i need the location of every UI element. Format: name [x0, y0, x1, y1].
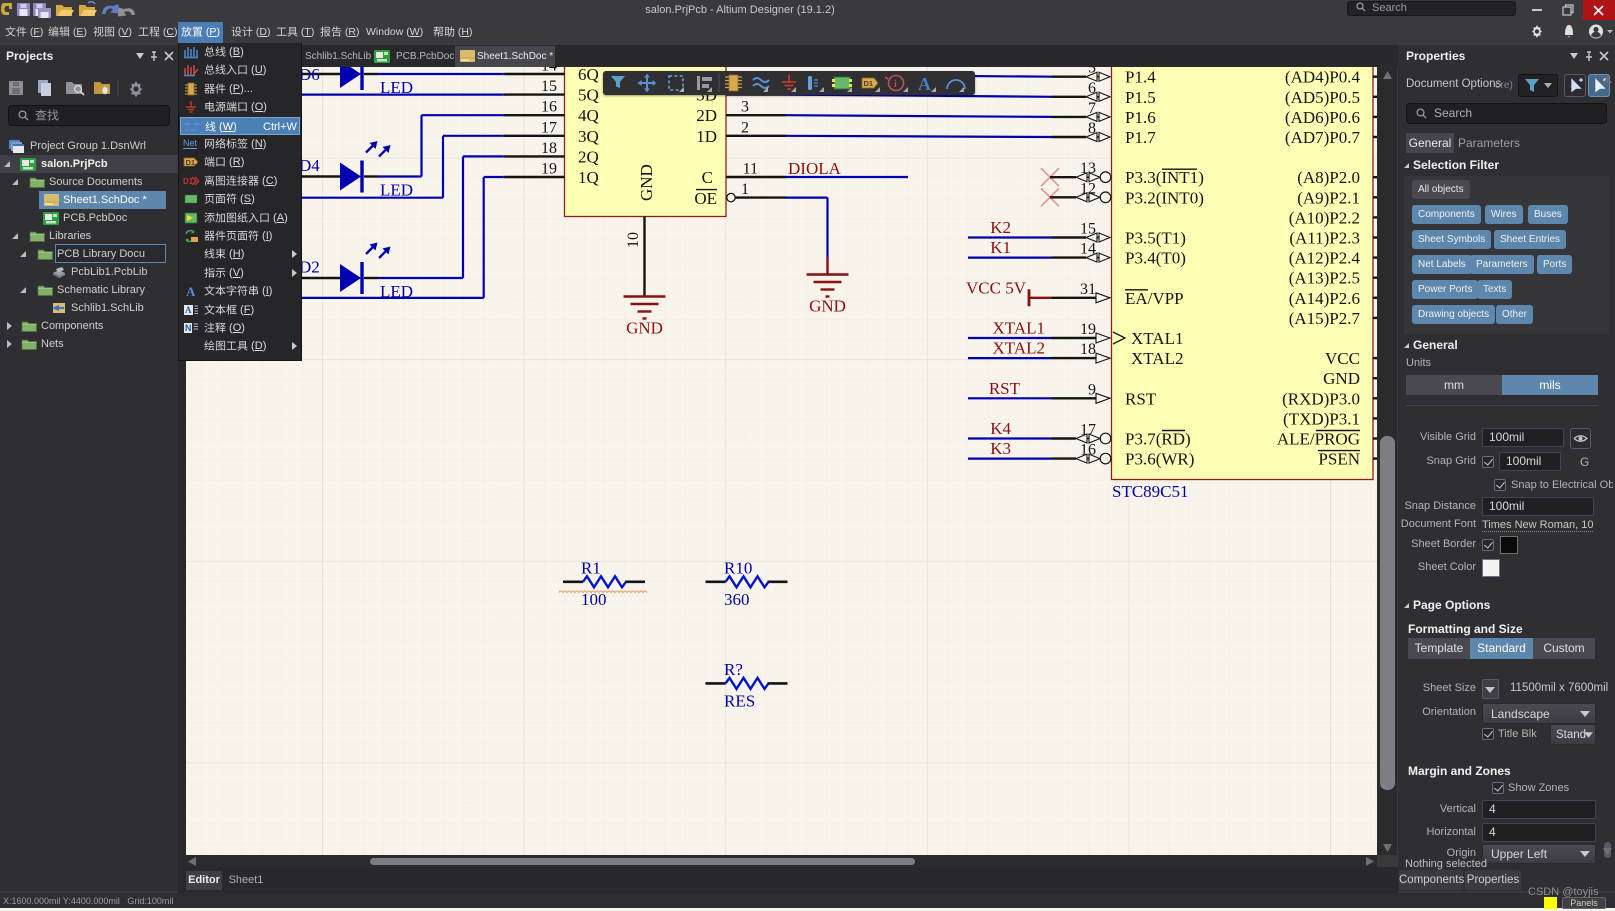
- svg-text:(A13)P2.5: (A13)P2.5: [1289, 269, 1360, 288]
- svg-text:(A14)P2.6: (A14)P2.6: [1289, 289, 1360, 308]
- svg-text:5: 5: [1088, 67, 1096, 77]
- svg-text:(RXD)P3.0: (RXD)P3.0: [1282, 389, 1360, 408]
- svg-text:18: 18: [541, 140, 557, 157]
- svg-text:17: 17: [1080, 422, 1096, 439]
- svg-text:9: 9: [1088, 381, 1096, 398]
- svg-text:19: 19: [541, 161, 557, 178]
- svg-text:19: 19: [1080, 321, 1096, 338]
- svg-text:RES: RES: [724, 691, 755, 710]
- svg-text:XTAL1: XTAL1: [1131, 329, 1183, 348]
- svg-text:P3.5(T1): P3.5(T1): [1125, 229, 1186, 248]
- svg-text:(AD7)P0.7: (AD7)P0.7: [1285, 128, 1361, 147]
- svg-text:VCC 5V: VCC 5V: [966, 278, 1027, 297]
- svg-text:15: 15: [1080, 221, 1096, 238]
- svg-text:2: 2: [741, 119, 749, 136]
- svg-text:6Q: 6Q: [578, 67, 599, 84]
- svg-text:D4: D4: [299, 156, 320, 175]
- svg-text:R?: R?: [724, 660, 743, 679]
- svg-text:XTAL2: XTAL2: [993, 339, 1045, 358]
- svg-text:K3: K3: [990, 439, 1011, 458]
- svg-text:P3.2(INT0): P3.2(INT0): [1125, 188, 1204, 207]
- svg-text:ALE/PROG: ALE/PROG: [1277, 430, 1360, 449]
- svg-text:D2: D2: [299, 258, 320, 277]
- svg-text:(A11)P2.3: (A11)P2.3: [1289, 229, 1360, 248]
- svg-text:RST: RST: [1125, 389, 1157, 408]
- svg-text:D1: D1: [186, 158, 196, 167]
- svg-text:(A15)P2.7: (A15)P2.7: [1289, 309, 1361, 328]
- svg-text:D6: D6: [299, 67, 320, 84]
- svg-text:P1.5: P1.5: [1125, 88, 1156, 107]
- svg-text:K2: K2: [990, 218, 1011, 237]
- svg-text:11: 11: [743, 161, 758, 178]
- svg-text:GND: GND: [637, 164, 656, 201]
- svg-text:K4: K4: [990, 419, 1011, 438]
- svg-text:DIOLA: DIOLA: [788, 159, 842, 178]
- svg-text:XTAL1: XTAL1: [993, 319, 1045, 338]
- svg-text:A: A: [185, 305, 192, 315]
- svg-text:1D: 1D: [696, 127, 717, 146]
- svg-text:14: 14: [541, 67, 557, 75]
- svg-text:17: 17: [541, 119, 557, 136]
- svg-text:VCC: VCC: [1325, 349, 1360, 368]
- svg-text:P1.7: P1.7: [1125, 128, 1156, 147]
- svg-text:P3.7(RD): P3.7(RD): [1125, 430, 1191, 449]
- svg-text:P1.6: P1.6: [1125, 108, 1156, 127]
- svg-text:GND: GND: [1323, 369, 1360, 388]
- svg-text:EA/VPP: EA/VPP: [1125, 289, 1184, 308]
- svg-text:12: 12: [1080, 180, 1096, 197]
- svg-text:R1: R1: [581, 558, 601, 577]
- svg-text:PSEN: PSEN: [1318, 450, 1360, 469]
- svg-text:(AD6)P0.6: (AD6)P0.6: [1285, 108, 1360, 127]
- svg-text:P3.4(T0): P3.4(T0): [1125, 249, 1186, 268]
- svg-text:Net: Net: [183, 138, 198, 148]
- svg-text:(A8)P2.0: (A8)P2.0: [1297, 168, 1360, 187]
- svg-text:R10: R10: [724, 558, 752, 577]
- svg-text:i: i: [894, 79, 897, 90]
- svg-text:16: 16: [541, 99, 557, 116]
- svg-text:2D: 2D: [696, 106, 717, 125]
- svg-text:RST: RST: [989, 379, 1021, 398]
- svg-text:16: 16: [1080, 442, 1096, 459]
- svg-text:8: 8: [1088, 120, 1096, 137]
- svg-text:(TXD)P3.1: (TXD)P3.1: [1283, 409, 1360, 428]
- svg-text:A: A: [918, 74, 931, 94]
- svg-text:3Q: 3Q: [578, 127, 599, 146]
- svg-text:(A12)P2.4: (A12)P2.4: [1289, 249, 1361, 268]
- svg-text:(A9)P2.1: (A9)P2.1: [1297, 188, 1360, 207]
- svg-text:5Q: 5Q: [578, 86, 599, 105]
- svg-text:3: 3: [741, 99, 749, 116]
- svg-text:K1: K1: [990, 238, 1011, 257]
- svg-text:(AD4)P0.4: (AD4)P0.4: [1285, 68, 1361, 87]
- svg-text:1Q: 1Q: [578, 168, 599, 187]
- svg-text:7: 7: [1088, 100, 1096, 117]
- svg-text:1: 1: [741, 181, 749, 198]
- svg-text:18: 18: [1080, 341, 1096, 358]
- svg-text:(A10)P2.2: (A10)P2.2: [1289, 208, 1360, 227]
- svg-text:STC89C51: STC89C51: [1112, 482, 1189, 501]
- svg-text:A: A: [186, 284, 196, 298]
- svg-text:N: N: [185, 323, 192, 333]
- svg-text:31: 31: [1080, 281, 1096, 298]
- svg-text:13: 13: [1080, 160, 1096, 177]
- svg-text:D1: D1: [864, 79, 874, 88]
- svg-text:360: 360: [724, 590, 750, 609]
- svg-text:15: 15: [541, 78, 557, 95]
- svg-text:OE: OE: [694, 189, 717, 208]
- svg-text:GND: GND: [809, 297, 846, 316]
- svg-text:14: 14: [1080, 241, 1096, 258]
- svg-text:P3.6(WR): P3.6(WR): [1125, 450, 1194, 469]
- svg-text:10: 10: [625, 232, 642, 248]
- svg-text:P1.4: P1.4: [1125, 68, 1156, 87]
- svg-text:C: C: [702, 168, 713, 187]
- svg-text:XTAL2: XTAL2: [1131, 349, 1183, 368]
- svg-text:4Q: 4Q: [578, 106, 599, 125]
- svg-text:P3.3(INT1): P3.3(INT1): [1125, 168, 1204, 187]
- svg-text:6: 6: [1088, 80, 1096, 97]
- svg-text:2Q: 2Q: [578, 147, 599, 166]
- svg-text:GND: GND: [626, 319, 663, 338]
- svg-text:(AD5)P0.5: (AD5)P0.5: [1285, 88, 1360, 107]
